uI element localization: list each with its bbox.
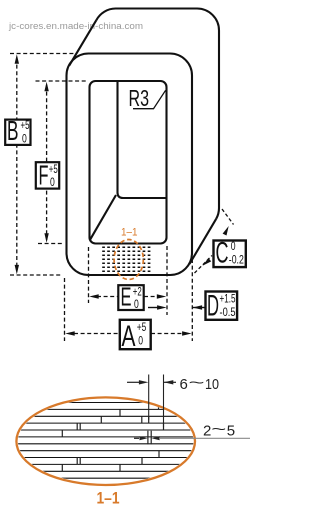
section detail circle 1-1 <box>114 240 143 280</box>
svg-text:F: F <box>39 160 49 191</box>
extension lines 6~10 <box>148 375 150 420</box>
extension line E right / D left <box>166 246 168 315</box>
svg-text:+1.5: +1.5 <box>220 293 236 305</box>
svg-text:1–1: 1–1 <box>97 490 120 508</box>
svg-text:-0.5: -0.5 <box>220 307 236 319</box>
svg-text:0: 0 <box>50 177 55 189</box>
dimension box D <box>206 292 238 320</box>
dimension line D <box>148 307 160 309</box>
svg-text:+2: +2 <box>133 286 142 298</box>
bottom-right depth diagonal <box>190 219 217 264</box>
extension line E left <box>88 247 90 303</box>
dimension line E <box>97 296 118 298</box>
core front face outline <box>67 54 193 276</box>
extension line front right / A right <box>191 259 193 341</box>
dimension box F <box>36 162 59 188</box>
dimension leader C lower <box>195 256 213 274</box>
svg-text:6: 6 <box>180 376 188 393</box>
R3 leader line <box>133 90 166 108</box>
svg-text:0: 0 <box>134 299 139 311</box>
svg-text:A: A <box>122 320 136 353</box>
svg-text:R3: R3 <box>129 85 150 111</box>
dimension box A <box>120 320 151 349</box>
svg-text:B: B <box>7 115 19 146</box>
svg-text:+5: +5 <box>137 322 147 334</box>
gap ticks for 2~5 <box>148 431 151 444</box>
svg-text:0: 0 <box>22 134 27 146</box>
svg-text:D: D <box>207 290 219 323</box>
dimension line 6~10 <box>127 381 140 383</box>
dimension line A <box>74 333 119 335</box>
lamination layer lines <box>14 403 198 479</box>
extension line front top <box>10 53 74 55</box>
extension line front bottom <box>10 274 62 276</box>
svg-text:-0.2: -0.2 <box>229 255 244 267</box>
dimension line B <box>16 58 18 271</box>
svg-text:0: 0 <box>138 336 143 348</box>
dimension box E <box>118 285 143 310</box>
svg-text:0: 0 <box>231 241 236 253</box>
extension line A left <box>64 278 66 341</box>
svg-text:1–1: 1–1 <box>121 227 138 239</box>
top-left depth diagonal <box>69 20 96 65</box>
leader line 2~5 <box>159 437 250 439</box>
dimension arrows 2~5 <box>134 437 139 439</box>
svg-text:+5: +5 <box>49 164 58 176</box>
svg-text:10: 10 <box>205 376 219 393</box>
svg-text:2: 2 <box>203 422 211 439</box>
dimension line F <box>46 85 48 240</box>
dimension box B <box>5 120 30 145</box>
lamination joint ticks <box>62 403 163 472</box>
core window (front hole) <box>90 81 167 244</box>
section view ellipse (orange) <box>16 397 195 485</box>
back hole left edge <box>118 81 167 198</box>
svg-text:~: ~ <box>211 421 226 438</box>
extension line window top <box>36 80 89 82</box>
window depth diagonal <box>90 195 116 239</box>
svg-text:~: ~ <box>189 375 205 392</box>
dimension leader C upper <box>222 209 234 225</box>
lamination hatch patch <box>102 247 150 271</box>
svg-text:C: C <box>216 237 229 270</box>
extension line window bottom <box>38 243 64 245</box>
svg-text:5: 5 <box>227 422 235 439</box>
svg-text:jc-cores.en.made-in-china.com: jc-cores.en.made-in-china.com <box>8 21 143 31</box>
svg-text:E: E <box>121 282 132 312</box>
dimension box C <box>214 241 246 268</box>
svg-text:+5: +5 <box>21 120 30 132</box>
core back face visible outline <box>96 9 219 219</box>
